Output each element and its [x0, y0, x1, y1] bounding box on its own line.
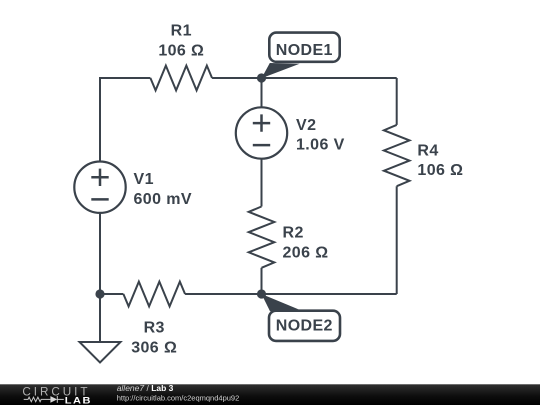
svg-text:NODE1: NODE1: [276, 42, 333, 59]
svg-text:LAB: LAB: [65, 396, 92, 405]
svg-text:allene7 / Lab 3: allene7 / Lab 3: [117, 383, 174, 393]
svg-text:NODE2: NODE2: [276, 318, 333, 335]
svg-text:R1: R1: [171, 23, 192, 40]
svg-text:R2: R2: [283, 225, 304, 242]
svg-text:R4: R4: [417, 142, 438, 159]
svg-text:306 Ω: 306 Ω: [131, 340, 177, 357]
svg-text:106 Ω: 106 Ω: [417, 162, 463, 179]
svg-text:206 Ω: 206 Ω: [283, 245, 329, 262]
svg-text:1.06 V: 1.06 V: [296, 137, 345, 154]
svg-text:V1: V1: [134, 171, 154, 188]
svg-text:600 mV: 600 mV: [134, 191, 192, 208]
svg-text:106 Ω: 106 Ω: [158, 42, 204, 59]
svg-text:http://circuitlab.com/c2eqmqnd: http://circuitlab.com/c2eqmqnd4pu92: [117, 393, 240, 402]
svg-text:V2: V2: [296, 117, 316, 134]
svg-text:R3: R3: [144, 320, 165, 337]
